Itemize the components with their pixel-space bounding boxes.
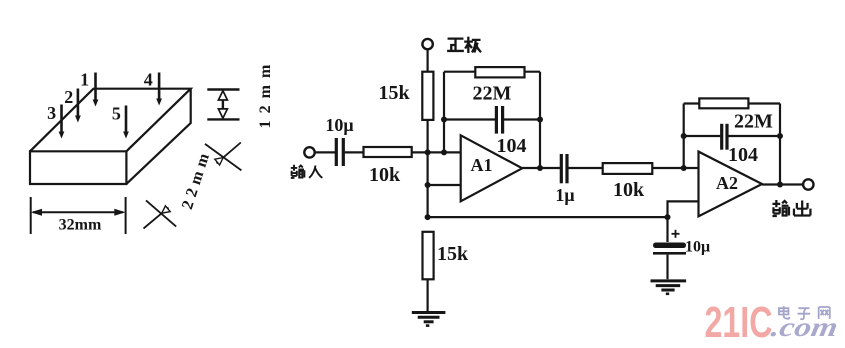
pin 5 bbox=[125, 106, 128, 136]
dimension 22mm bbox=[144, 143, 242, 229]
op-amp A2 bbox=[699, 152, 763, 217]
junction node: R1 bottom / input line bbox=[425, 149, 431, 155]
wire: C1 to R2 bbox=[345, 151, 364, 153]
svg-text:104: 104 bbox=[497, 135, 527, 157]
wire: A1 feedback loop top bbox=[444, 71, 540, 73]
svg-text:15k: 15k bbox=[437, 243, 469, 265]
junction node: A1 output bbox=[537, 165, 543, 171]
svg-text:22M: 22M bbox=[734, 111, 773, 133]
svg-text:A2: A2 bbox=[716, 173, 738, 193]
junction node: bottom wire / C5 branch bbox=[665, 214, 671, 220]
ground (left) bbox=[412, 313, 446, 322]
wire: A2 feedback loop top bbox=[684, 102, 780, 104]
capacitor C1 10μ bbox=[335, 138, 338, 166]
svg-text:32mm: 32mm bbox=[59, 217, 102, 234]
wire: A2 feedback loop left vertical bbox=[683, 104, 685, 169]
label 正极 bbox=[448, 38, 480, 52]
svg-text:1μ: 1μ bbox=[555, 185, 574, 205]
junction node: A1 inverting input bbox=[441, 149, 447, 155]
dimension 32mm bbox=[31, 197, 126, 234]
pin 4 bbox=[158, 73, 161, 103]
wire: A1 lower input bbox=[428, 184, 461, 186]
output terminal bbox=[803, 179, 813, 189]
wire: main vertical below R1 bbox=[427, 120, 429, 217]
package box top face bbox=[30, 89, 191, 152]
capacitor C3 1μ bbox=[560, 154, 563, 183]
dimension 12mm bbox=[207, 90, 239, 120]
op-amp A1 bbox=[461, 135, 523, 201]
junction node: C4 tap on A2 loop bbox=[681, 133, 687, 139]
pin 2 bbox=[77, 89, 80, 120]
pin 1 bbox=[94, 73, 97, 104]
label 输出 bbox=[772, 200, 810, 216]
svg-text:1: 1 bbox=[80, 70, 89, 90]
resistor R6 15k (lower) bbox=[423, 232, 434, 279]
wire: R4 to A2 bbox=[652, 167, 698, 169]
ground (right) bbox=[651, 281, 687, 290]
terminal 正极 (V+) bbox=[427, 50, 429, 73]
package box right face bbox=[126, 89, 190, 184]
junction node: bottom wire / R6 top bbox=[425, 214, 431, 220]
junction node: A2 inverting input bbox=[681, 165, 687, 171]
watermark 电子网 bbox=[779, 306, 830, 319]
wire: C3 to R4 bbox=[568, 167, 602, 169]
svg-text:15k: 15k bbox=[378, 82, 410, 104]
pin 3 bbox=[60, 105, 63, 136]
svg-text:10k: 10k bbox=[613, 179, 645, 201]
resistor R3 22M (A1 feedback) bbox=[475, 67, 524, 77]
wire: input circle to C1 bbox=[315, 151, 335, 153]
capacitor C5 10μ polarized bbox=[653, 243, 686, 249]
wire: A1 feedback loop right vertical bbox=[539, 72, 541, 168]
resistor R4 10k bbox=[603, 163, 653, 174]
svg-text:104: 104 bbox=[728, 144, 758, 166]
junction node: C2 tap on A1 loop bbox=[441, 117, 447, 123]
svg-text:10μ: 10μ bbox=[685, 239, 710, 256]
wire: bottom horizontal bbox=[428, 216, 668, 218]
resistor R1 15k (upper) bbox=[422, 72, 433, 120]
svg-text:2: 2 bbox=[64, 87, 73, 107]
junction node: C2 right / A1 loop right bbox=[537, 117, 543, 123]
resistor R5 22M (A2 feedback) bbox=[699, 98, 748, 108]
wire: A2 lower input jog bbox=[668, 201, 699, 242]
capacitor C2 104 (A1 feedback) bbox=[444, 118, 495, 120]
svg-text:10k: 10k bbox=[369, 164, 401, 186]
junction node: A2 output bbox=[777, 182, 783, 188]
wire: A1 output to C3 bbox=[522, 167, 560, 169]
junction node: A1 lower input branch bbox=[425, 182, 431, 188]
label 输入 bbox=[291, 165, 323, 178]
svg-text:A1: A1 bbox=[471, 155, 493, 175]
capacitor C4 104 (A2 feedback) bbox=[684, 135, 721, 137]
svg-text:5: 5 bbox=[112, 104, 121, 124]
wire: C5 to ground bbox=[666, 255, 668, 280]
wire: A2 feedback loop right vertical bbox=[779, 104, 781, 185]
wire: R6 to ground bbox=[427, 279, 429, 311]
svg-text:21IC: 21IC bbox=[705, 298, 773, 347]
wire: R2 to A1 input node bbox=[412, 151, 461, 153]
svg-text:4: 4 bbox=[144, 70, 153, 90]
svg-text:12mm: 12mm bbox=[257, 58, 274, 129]
package box front face bbox=[30, 151, 126, 184]
wire: A2 output bbox=[762, 183, 803, 185]
svg-text:22M: 22M bbox=[473, 83, 512, 105]
junction node: C4 right / A2 loop right bbox=[777, 133, 783, 139]
resistor R2 10k bbox=[364, 147, 412, 157]
svg-text:10μ: 10μ bbox=[325, 115, 353, 135]
svg-text:3: 3 bbox=[47, 103, 56, 123]
input terminal bbox=[304, 147, 314, 157]
wire: A1 feedback loop left vertical bbox=[443, 72, 445, 153]
